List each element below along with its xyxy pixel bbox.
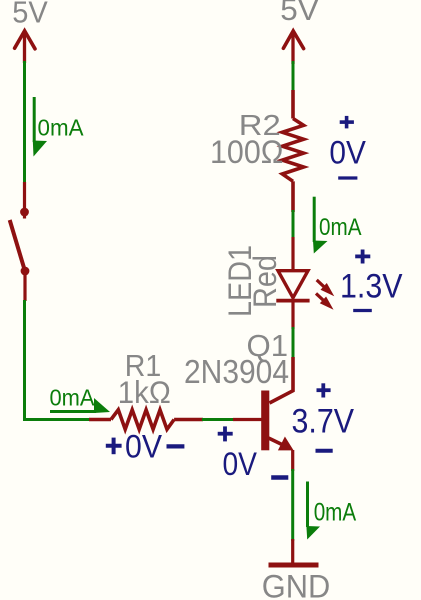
svg-text:0mA: 0mA [38, 115, 84, 141]
wire green R1 to Q1 base [202, 418, 235, 421]
svg-text:1kΩ: 1kΩ [118, 374, 171, 410]
wire green R2 to LED1 [292, 210, 295, 239]
LED1 light arrow 1 [314, 277, 338, 300]
svg-text:0V: 0V [223, 446, 258, 482]
svg-text:3.7V: 3.7V [292, 403, 355, 441]
switch SW1 stub below top dot [23, 212, 26, 219]
transistor Q1 emitter lead with arrow [269, 438, 284, 445]
LED1 anode lead [291, 237, 294, 270]
current probe arrow 0mA (left branch) [33, 97, 84, 157]
voltage annotation minus (R1 right) [167, 444, 185, 448]
svg-text:5V: 5V [12, 0, 48, 29]
LED1 cathode bar [276, 299, 309, 303]
LED1 light arrow 2 [313, 290, 337, 313]
svg-text:100Ω: 100Ω [210, 134, 284, 170]
voltage annotation + (LED top) [355, 250, 370, 264]
voltage annotation minus (LED bottom) [353, 309, 372, 312]
svg-text:0mA: 0mA [50, 385, 95, 411]
voltage annotation + (base) [218, 426, 233, 441]
voltage annotation minus (R2 bottom) [338, 176, 357, 179]
current probe arrow 0mA (into LED1) [313, 197, 362, 254]
resistor R2 100 zigzag (vertical) [282, 90, 303, 212]
LED1 triangle [278, 271, 308, 298]
switch SW1 bottom contact dot [21, 267, 30, 276]
voltage annotation + (R1 left) [106, 438, 122, 455]
wire stub dark red below switch [23, 271, 26, 301]
ground bar [269, 563, 319, 568]
svg-text:0mA: 0mA [319, 214, 362, 241]
wire right vertical green (5V to R2) [292, 61, 295, 92]
wire green LED1 to Q1 collector [292, 327, 295, 358]
wire stub dark red above switch [23, 182, 26, 209]
emitter wire dark red stub [291, 450, 294, 471]
voltage annotation minus (emitter) [271, 475, 288, 479]
LED1 cathode lead [291, 301, 294, 330]
switch SW1 blade (open) [10, 220, 25, 271]
transistor Q1 base lead [233, 418, 262, 421]
svg-text:2N3904: 2N3904 [184, 353, 289, 390]
svg-text:Red: Red [247, 255, 283, 308]
current probe arrow 0mA (emitter) [306, 482, 356, 540]
transistor Q1 base bar [261, 391, 269, 451]
switch SW1 top contact dot [20, 208, 29, 217]
power supply V2 up-arrow (right 5V) [283, 31, 303, 64]
current probe arrow 0mA (into R1) [50, 385, 111, 414]
svg-text:0V: 0V [125, 429, 162, 465]
svg-text:5V: 5V [280, 0, 319, 27]
voltage annotation + (collector) [317, 383, 331, 397]
svg-text:0mA: 0mA [314, 499, 357, 527]
voltage annotation minus (C-E bottom) [316, 449, 333, 453]
wire bottom-left horizontal green (corner to R1) [23, 418, 90, 421]
wire left vertical green (switch to corner) [23, 300, 26, 421]
svg-text:0V: 0V [329, 135, 366, 171]
svg-text:1.3V: 1.3V [340, 268, 403, 306]
power supply V1 up-arrow (left 5V) [15, 31, 35, 63]
wire green emitter to GND [291, 469, 294, 541]
transistor Q1 collector lead [270, 357, 294, 403]
svg-text:GND: GND [262, 568, 331, 600]
resistor R1 1k zigzag [89, 410, 203, 430]
wire dark red stub to ground bar [291, 539, 294, 564]
wire left vertical green (5V to switch) [23, 61, 26, 183]
voltage annotation + (R2 top) [340, 116, 354, 128]
